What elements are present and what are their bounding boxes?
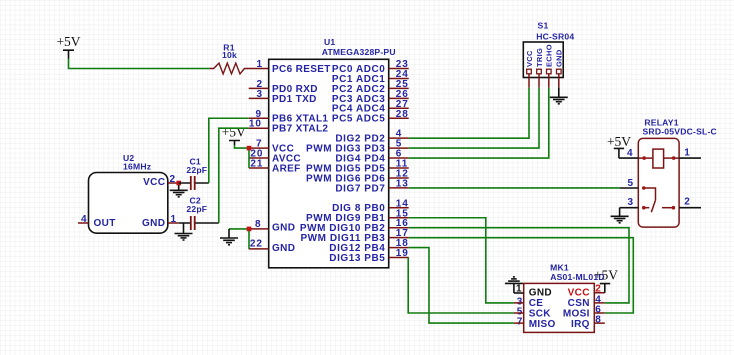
U2 pin 4 stub (78, 222, 89, 224)
relay coil dots (642, 156, 646, 160)
svg-text:7: 7 (517, 317, 524, 328)
svg-text:8: 8 (255, 219, 262, 230)
svg-text:2: 2 (170, 174, 177, 185)
svg-text:+5V: +5V (594, 268, 618, 283)
svg-text:8: 8 (595, 315, 602, 326)
power +5V P2 at U1 VCC (222, 125, 246, 146)
svg-text:OUT: OUT (94, 218, 116, 229)
ground G4 at S1 GND (550, 88, 568, 104)
relay contact common (644, 188, 673, 212)
microcontroller U1 ATMEGA328P-PU body (269, 37, 396, 268)
relay pin 3 lead (620, 207, 639, 209)
svg-text:22pF: 22pF (186, 204, 207, 214)
svg-text:3: 3 (628, 197, 635, 208)
svg-text:VCC: VCC (568, 288, 590, 299)
svg-text:1: 1 (684, 147, 691, 158)
svg-text:CSN: CSN (568, 298, 590, 309)
relay pin 4 lead (619, 157, 638, 159)
ground G3 at U1 GND (220, 229, 238, 245)
svg-text:GND: GND (272, 223, 295, 234)
svg-text:MOSI: MOSI (563, 309, 590, 320)
U1 left pin stubs (249, 88, 269, 249)
svg-text:GND: GND (555, 49, 564, 67)
resistor R1 (210, 43, 269, 74)
power +5V P1 top-left (56, 34, 80, 59)
svg-text:22: 22 (250, 238, 263, 249)
wire VCC-AVCC-AREF tie (248, 148, 250, 168)
svg-text:21: 21 (250, 159, 263, 170)
svg-text:PC5 ADC5: PC5 ADC5 (332, 114, 386, 125)
MK1 pin stubs (514, 293, 605, 323)
wire U1 DIG10 to MK1 CSN (409, 228, 629, 303)
module MK1 AS01-ML01D body (524, 263, 605, 333)
svg-text:+5V: +5V (607, 134, 631, 149)
capacitor C1 (179, 157, 209, 191)
svg-text:1: 1 (256, 59, 263, 70)
svg-text:IRQ: IRQ (571, 319, 590, 330)
svg-text:GND: GND (142, 218, 165, 229)
svg-text:DIG7 PD7: DIG7 PD7 (335, 183, 385, 194)
svg-text:4: 4 (627, 148, 634, 159)
U1 right pin stubs (389, 69, 409, 258)
svg-text:PD1 TXD: PD1 TXD (272, 94, 317, 105)
wire S1 ECHO to U1 DIG4 (409, 88, 549, 158)
svg-text:10: 10 (249, 119, 262, 130)
U1 left pin names (272, 64, 331, 254)
relay pin 5 lead (620, 187, 639, 189)
svg-text:VCC: VCC (143, 177, 165, 188)
svg-text:TRIG: TRIG (535, 48, 544, 67)
svg-text:+5V: +5V (222, 125, 246, 140)
relay pin 2 lead (679, 207, 701, 209)
svg-text:GND: GND (272, 243, 295, 254)
svg-text:DIG13 PB5: DIG13 PB5 (329, 253, 385, 264)
svg-text:PC6 RESET: PC6 RESET (272, 64, 331, 75)
svg-text:S1: S1 (538, 21, 549, 31)
relay RELAY1 body (638, 118, 717, 228)
junction at U2 VCC (176, 181, 181, 186)
svg-text:MISO: MISO (529, 319, 556, 330)
wire GND to U1 pin8 (229, 228, 249, 230)
U1 right pin numbers (396, 59, 409, 259)
svg-text:SCK: SCK (529, 309, 552, 320)
svg-text:VCC: VCC (525, 50, 534, 67)
ground G6 inverted at MK1 GND (505, 277, 524, 293)
svg-text:HC-SR04: HC-SR04 (536, 32, 574, 42)
wire U1 DIG13 to MK1 SCK (408, 258, 514, 313)
wire U1 DIG11 to MK1 MOSI (409, 238, 634, 313)
wire U1 DIG12 to MK1 MISO (409, 248, 514, 324)
svg-text:2: 2 (684, 197, 691, 208)
svg-text:GND: GND (529, 288, 552, 299)
U1 left pin numbers (249, 79, 264, 249)
svg-text:ECHO: ECHO (545, 44, 554, 67)
svg-text:28: 28 (396, 109, 409, 120)
svg-text:U1: U1 (324, 37, 335, 47)
svg-text:16MHz: 16MHz (123, 161, 151, 171)
ground G2 at U2 GND pin (175, 223, 193, 240)
svg-text:5: 5 (628, 178, 635, 189)
svg-text:ATMEGA328P-PU: ATMEGA328P-PU (322, 47, 396, 57)
svg-text:CE: CE (529, 298, 544, 309)
ground G5 at relay pin 3 (611, 208, 629, 223)
S1 pin TRIG (535, 48, 544, 88)
wire U1 DIG7 to relay pin5 (409, 187, 620, 189)
U2 pin 2 stub (168, 182, 179, 184)
svg-text:SRD-05VDC-SL-C: SRD-05VDC-SL-C (643, 126, 717, 136)
svg-text:13: 13 (396, 178, 409, 189)
ground G1 at U2 VCC (170, 185, 188, 197)
U2 pin 1 stub (168, 222, 179, 224)
power +5V P3 at relay (607, 134, 631, 158)
svg-text:3: 3 (256, 89, 263, 100)
svg-text:19: 19 (396, 248, 409, 259)
S1 pin GND (555, 49, 564, 87)
svg-text:+5V: +5V (56, 34, 80, 49)
U1 right pin names (300, 64, 386, 264)
svg-text:PB7 XTAL2: PB7 XTAL2 (272, 124, 328, 135)
junction at U1 pin 8 (247, 227, 252, 232)
crystal U2 body (89, 153, 168, 233)
wire +5V P2 to VCC junction (235, 145, 250, 148)
svg-text:1: 1 (171, 214, 178, 225)
svg-text:MK1: MK1 (550, 263, 569, 273)
svg-text:10k: 10k (222, 50, 237, 60)
S1 pin VCC (525, 50, 534, 88)
wire U1 DIG9 to MK1 CE (409, 218, 514, 303)
sensor S1 HC-SR04 body (523, 21, 574, 78)
wire S1 TRIG to U1 DIG3 (409, 88, 539, 149)
wire S1 VCC to U1 DIG2 (409, 88, 529, 139)
wire +5V to R1 (69, 59, 210, 69)
power +5V P4 at MK1 VCC (594, 268, 618, 293)
relay coil (638, 149, 679, 168)
junction at VCC pin 7 (247, 146, 252, 151)
relay pin 1 lead (679, 157, 701, 159)
svg-text:AREF: AREF (272, 163, 301, 174)
capacitor C2 (179, 195, 219, 230)
wire XTAL1 to C1 (209, 118, 249, 183)
S1 pin ECHO (545, 44, 554, 87)
svg-text:22pF: 22pF (186, 165, 207, 175)
relay contact dots (642, 186, 646, 190)
wire XTAL2 to C2 (219, 128, 249, 223)
wire pin8 to pin22 tie (248, 229, 250, 249)
svg-text:4: 4 (81, 214, 88, 225)
